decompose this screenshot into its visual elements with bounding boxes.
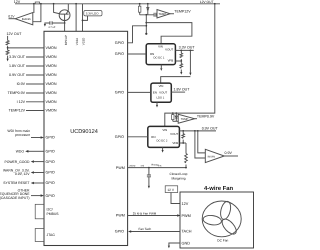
node junction temp12v	[145, 14, 147, 16]
op-amp U9 margining amp	[205, 149, 224, 162]
svg-text:VMON: VMON	[46, 55, 57, 59]
wire V33D from rail to chip	[82, 4, 84, 32]
svg-text:processor: processor	[15, 133, 31, 137]
svg-text:GPIO: GPIO	[46, 181, 55, 185]
wire 1.8V output	[171, 91, 185, 93]
wire VMON8	[26, 110, 44, 112]
svg-text:UCD90124: UCD90124	[70, 129, 98, 135]
svg-text:VOUT: VOUT	[159, 90, 167, 94]
svg-text:LDO 1: LDO 1	[157, 97, 165, 100]
wire WDI arrow in	[31, 137, 41, 139]
node junction fb1	[180, 50, 182, 52]
svg-text:VMON: VMON	[46, 91, 57, 95]
ground arrow fan	[168, 246, 170, 249]
wire shunt sense left	[33, 4, 35, 13]
node junction V33D	[82, 20, 84, 22]
svg-text:GPIO: GPIO	[46, 136, 55, 140]
ground arrow fb1	[180, 72, 182, 75]
node junction cap	[148, 167, 150, 169]
svg-text:TEMP12V: TEMP12V	[9, 109, 26, 113]
svg-text:GPIO: GPIO	[115, 135, 124, 139]
svg-text:VIN: VIN	[162, 128, 167, 132]
resistor R4 divider bottom	[6, 50, 9, 55]
wire 12V rail	[15, 3, 220, 5]
svg-text:1.8V OUT: 1.8V OUT	[174, 87, 191, 91]
wire WDO arrow out	[28, 150, 44, 152]
svg-text:PWM: PWM	[116, 166, 125, 170]
svg-text:SYSTEM RESET: SYSTEM RESET	[3, 181, 29, 185]
svg-text:VMON: VMON	[46, 82, 57, 86]
wire VMON6	[26, 92, 44, 94]
wire BPCAP to chip	[64, 23, 66, 31]
chip U1 UCD90124	[44, 31, 128, 245]
svg-text:I0.9V: I0.9V	[17, 82, 26, 86]
svg-text:PWM: PWM	[116, 214, 125, 218]
svg-text:WDO: WDO	[16, 150, 25, 154]
wire PWM1	[128, 167, 186, 169]
wire amp inputs	[195, 131, 205, 158]
svg-text:EN: EN	[151, 135, 155, 139]
wire I12V output	[9, 18, 16, 20]
wire 3.3V output	[175, 49, 193, 51]
svg-text:TEMP: TEMP	[181, 118, 189, 121]
svg-text:0.9V: 0.9V	[225, 151, 233, 155]
ground arrow divider	[7, 59, 9, 62]
regulator U8 DC-DC 2	[148, 126, 180, 147]
wire sensor branch down	[145, 15, 147, 34]
connector J2 JTAG	[35, 229, 44, 242]
node junction tap r	[172, 112, 174, 114]
resistor R7	[172, 113, 174, 115]
svg-text:INA196: INA196	[22, 18, 31, 21]
resistor R6 fb bottom	[180, 61, 182, 72]
svg-text:1.8V OUT: 1.8V OUT	[9, 64, 26, 68]
wire GPIO3 to EN LDO	[128, 91, 151, 93]
svg-text:GPIO: GPIO	[46, 160, 55, 164]
resistor R8 fb2	[182, 131, 184, 143]
svg-text:TEMP0.9V: TEMP0.9V	[8, 91, 26, 95]
node terminal dot	[145, 33, 147, 35]
wire 12V to fan	[171, 193, 180, 204]
resistor R9 margining	[185, 143, 187, 168]
svg-text:BPCAP: BPCAP	[64, 35, 68, 45]
resistor Rshunt on 12V rail	[35, 2, 39, 4]
capacitor C1 bypass	[46, 22, 65, 24]
wire V33A from rail to chip	[75, 4, 77, 32]
svg-text:VIN: VIN	[158, 45, 163, 49]
svg-text:VOUT: VOUT	[170, 132, 178, 136]
svg-text:JTAG: JTAG	[47, 233, 56, 237]
diode D1	[147, 4, 149, 8]
wire temp node	[173, 120, 178, 122]
wire VFB1	[175, 60, 181, 62]
fan blade 2	[203, 214, 223, 226]
junction dots on rail	[33, 3, 35, 5]
ground arrow at C1	[45, 23, 46, 24]
svg-text:VMON: VMON	[46, 73, 57, 77]
wire 12V down right side	[165, 4, 215, 127]
svg-text:TEMP: TEMP	[159, 13, 167, 16]
left monitor inputs	[6, 32, 44, 113]
fan box	[180, 192, 254, 248]
svg-text:1%: 1%	[158, 165, 161, 168]
capacitor C3 margining	[147, 168, 151, 186]
wire SYSTEM RESET arrow out	[34, 182, 44, 184]
wire LDO output	[83, 16, 88, 21]
regulator U6 LDO 1.8V	[151, 83, 171, 102]
temp sensor circuit 0.9V	[172, 112, 215, 123]
svg-text:I12V: I12V	[8, 14, 15, 18]
wire POWER_GOOD arrow out	[34, 161, 44, 163]
svg-text:I 12V: I 12V	[17, 100, 26, 104]
svg-text:GPIO: GPIO	[46, 194, 55, 198]
node junction amp low	[194, 130, 196, 132]
svg-text:4.7 uF: 4.7 uF	[48, 26, 56, 29]
wire WARN_OV arrow out	[34, 172, 44, 174]
temp sensor U7 TEMP	[178, 114, 194, 123]
resistor R5 fb top	[180, 50, 182, 61]
wire GPIO1 to sensor	[128, 26, 147, 43]
resistor R2 temp12v pullup	[139, 4, 141, 6]
svg-text:TEMP12V: TEMP12V	[174, 10, 191, 14]
wire shunt sense right	[33, 4, 41, 22]
wire GPIO2 to EN1	[128, 53, 147, 55]
svg-text:GPIO: GPIO	[115, 52, 124, 56]
ground arrow below DC-DC1	[160, 65, 162, 69]
fan blade 3	[220, 217, 239, 237]
wire VMON3	[26, 65, 44, 67]
wire VMON5	[26, 83, 44, 85]
svg-text:GPIO: GPIO	[115, 41, 124, 45]
svg-text:VMON: VMON	[46, 46, 57, 50]
svg-text:DC Fan: DC Fan	[217, 239, 228, 243]
capacitor C2 temp filter	[154, 13, 156, 17]
connector J1 I2C/PMBUS	[35, 204, 44, 219]
svg-text:VMON: VMON	[46, 109, 57, 113]
regulator U5 DC-DC 1	[146, 44, 175, 65]
svg-text:GPIO: GPIO	[46, 150, 55, 154]
wire VMON7	[26, 101, 44, 103]
svg-text:12V OUT: 12V OUT	[200, 0, 214, 4]
svg-text:GND: GND	[182, 241, 191, 245]
svg-text:Fan Tach: Fan Tach	[139, 227, 152, 231]
svg-text:EN: EN	[153, 90, 157, 94]
node junction vfb2	[182, 142, 184, 144]
node junction marg	[185, 167, 187, 169]
svg-text:12V: 12V	[182, 202, 189, 206]
wire 3.3V to LDO VIN	[161, 50, 191, 83]
svg-text:3.3V OUT: 3.3V OUT	[9, 55, 26, 59]
left GPIO signals	[0, 129, 44, 241]
svg-text:0.9V OUT: 0.9V OUT	[9, 73, 26, 77]
svg-text:GPIO: GPIO	[115, 230, 124, 234]
regulator U3 3.3V LDO	[84, 11, 102, 16]
svg-text:TEMP0.9V: TEMP0.9V	[197, 114, 215, 118]
svg-text:DC-DC 2: DC-DC 2	[157, 139, 168, 142]
svg-text:25kHz: 25kHz	[129, 165, 135, 168]
node junction amp high	[197, 130, 199, 132]
svg-text:25 kHz Fan PWM: 25 kHz Fan PWM	[133, 211, 157, 215]
svg-text:3.3V OUT: 3.3V OUT	[179, 46, 196, 50]
svg-text:POWER_GOOD: POWER_GOOD	[4, 160, 30, 164]
diode D2	[175, 112, 177, 114]
fan blade 1	[219, 200, 232, 220]
svg-text:V33D: V33D	[81, 37, 85, 45]
fan circle	[202, 201, 241, 237]
temp sensor U4 TEMP	[157, 10, 170, 19]
resistor R3 divider top	[7, 36, 9, 59]
svg-text:TACH: TACH	[182, 230, 192, 234]
node junction gpio branch	[145, 25, 147, 27]
transistor Q1 pass element	[59, 10, 70, 21]
svg-text:Closed Loop: Closed Loop	[170, 172, 188, 176]
node junction ldo feed	[190, 50, 192, 52]
svg-text:GPIO: GPIO	[46, 171, 55, 175]
svg-text:PWM: PWM	[182, 214, 191, 218]
svg-text:V33A: V33A	[75, 38, 79, 45]
wire temp sensor node	[140, 14, 157, 16]
wire GPIO4 to EN2	[128, 136, 148, 138]
ground arrow C3	[148, 186, 150, 189]
svg-text:PMBUS: PMBUS	[47, 212, 60, 216]
svg-text:4-wire Fan: 4-wire Fan	[204, 185, 234, 192]
node junction fb2	[182, 130, 184, 132]
svg-text:Margining: Margining	[172, 177, 186, 181]
svg-text:VOUT: VOUT	[165, 47, 173, 51]
svg-text:INV/IN: INV/IN	[208, 155, 216, 158]
wire feed to DC-DC1 VIN	[146, 23, 192, 44]
wire VFB2	[179, 142, 186, 144]
svg-text:VIN: VIN	[159, 84, 164, 88]
wire cascade arrow in	[31, 195, 41, 197]
wire margined 0.9V out	[224, 155, 238, 157]
svg-text:12V: 12V	[14, 0, 21, 4]
node junction vfb1	[180, 60, 182, 62]
wire TEMP0.9V out	[195, 118, 197, 120]
wire 0.9V output	[179, 130, 216, 132]
svg-text:12 V: 12 V	[167, 188, 174, 192]
wire VMON1	[8, 47, 44, 49]
svg-text:(CASCADE INPUT): (CASCADE INPUT)	[0, 196, 30, 200]
svg-text:0.9V OUT: 0.9V OUT	[202, 126, 219, 130]
wire PWM2 to fan	[128, 215, 180, 217]
ground arrow below DC-DC2	[162, 147, 164, 150]
wire fan gnd	[169, 243, 180, 246]
source 12V box	[165, 186, 178, 193]
svg-text:3.3V LDO: 3.3V LDO	[86, 12, 99, 16]
svg-text:0.9V, 12V: 0.9V, 12V	[15, 172, 30, 176]
svg-text:GPIO: GPIO	[115, 91, 124, 95]
wire TEMP12V out	[170, 13, 174, 15]
svg-text:VMON: VMON	[46, 64, 57, 68]
svg-text:VMON: VMON	[46, 100, 57, 104]
op-amp U2 INA196 current monitor	[15, 13, 33, 25]
node junction divider	[7, 47, 9, 49]
wire VMON4	[26, 74, 44, 76]
svg-text:DC-DC 1: DC-DC 1	[154, 56, 165, 59]
wire fan tach	[131, 231, 180, 233]
ground arrow below LDO	[156, 102, 158, 105]
svg-text:VFB: VFB	[172, 141, 178, 145]
svg-text:12V OUT: 12V OUT	[7, 32, 23, 36]
node junction base	[64, 22, 66, 24]
svg-text:VFB: VFB	[168, 58, 174, 62]
wire VMON2	[26, 56, 44, 58]
node junction feed	[145, 22, 147, 24]
